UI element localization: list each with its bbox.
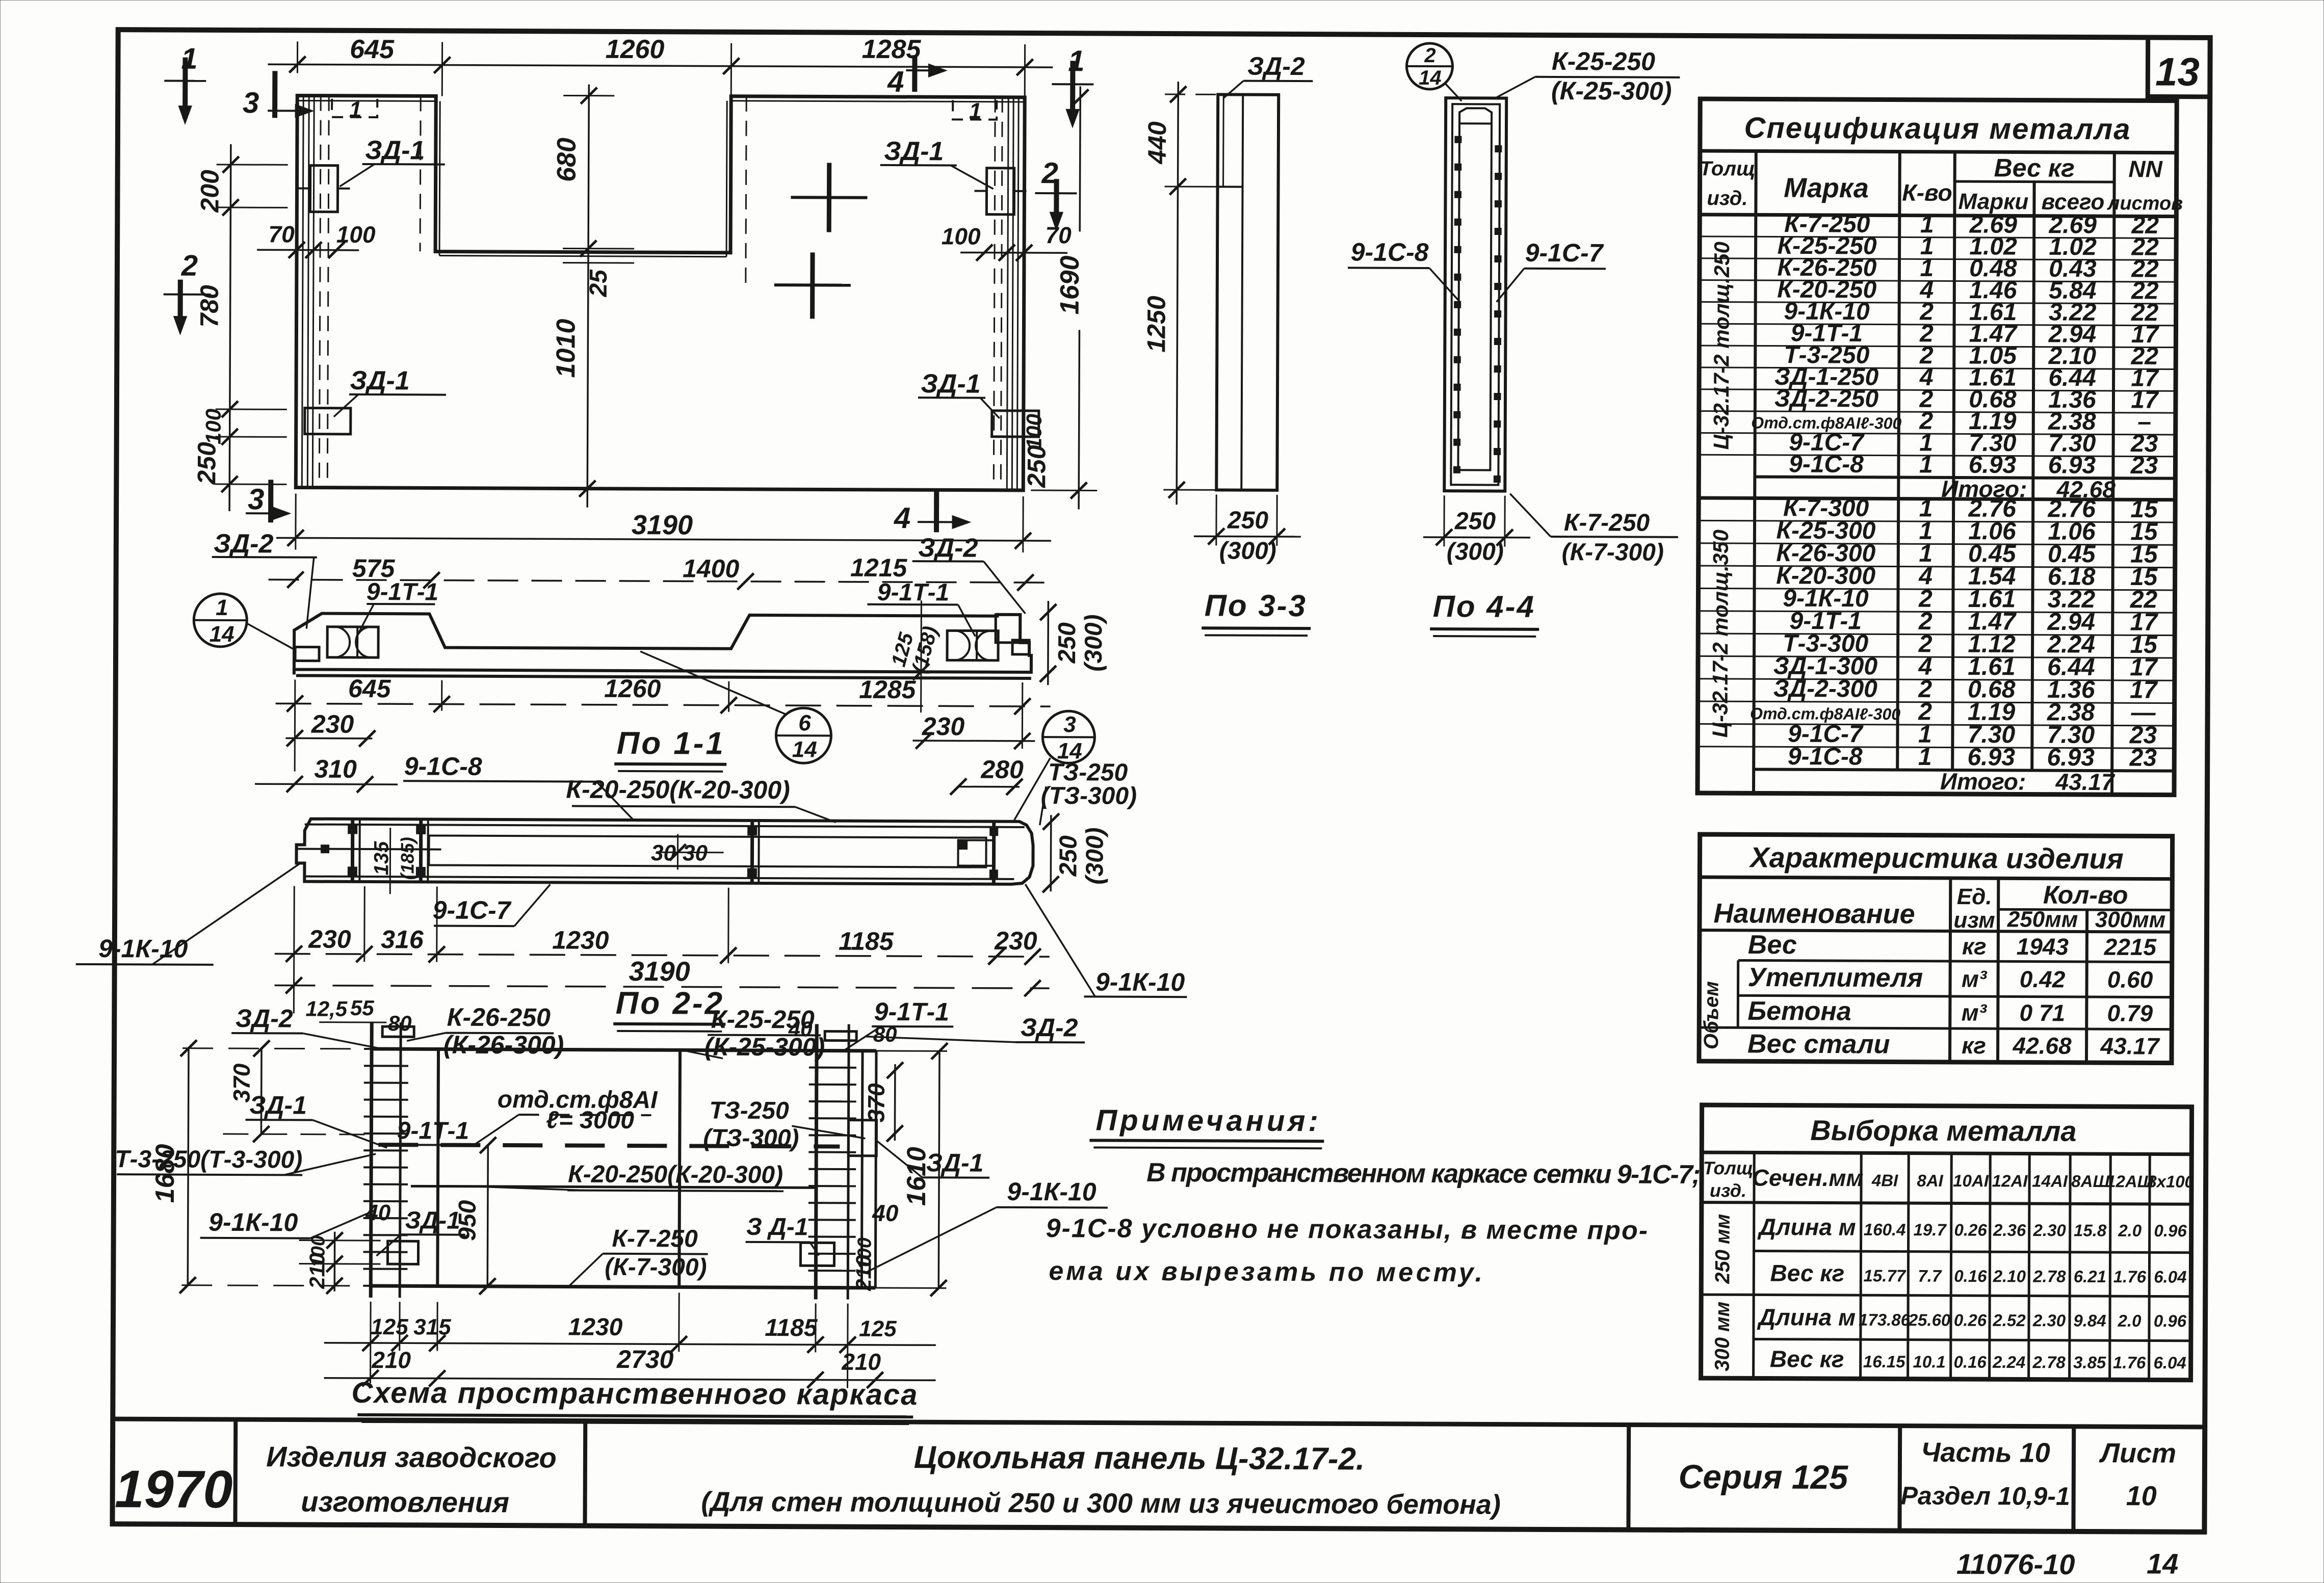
svg-text:Вес кг: Вес кг: [1994, 153, 2074, 182]
dim 1610 scheme: [938, 1051, 939, 1288]
svg-text:11076-10: 11076-10: [1956, 1548, 2075, 1580]
dim 1690 vertical right: [1080, 86, 1080, 231]
svg-text:Выборка металла: Выборка металла: [1810, 1114, 2076, 1147]
svg-text:4: 4: [887, 65, 904, 98]
callout circle 6/14: [776, 708, 831, 763]
svg-text:ЗД-1: ЗД-1: [884, 137, 944, 166]
svg-text:кг: кг: [1962, 933, 1987, 960]
dim 3190 plan bottom: [276, 538, 1051, 541]
svg-text:250мм: 250мм: [2007, 907, 2078, 932]
svg-text:7.7: 7.7: [1918, 1267, 1942, 1285]
svg-text:Раздел 10,9-1: Раздел 10,9-1: [1901, 1482, 2070, 1511]
scheme outer top chord: [372, 1049, 876, 1051]
svg-text:Кол-во: Кол-во: [2043, 881, 2128, 910]
fragment box 1 left: [332, 99, 377, 117]
svg-text:(300): (300): [1219, 537, 1276, 564]
dim 3190 Po2-2: [275, 985, 1050, 988]
dim line Po1-1 top 575/1400/1215: [269, 579, 1046, 583]
svg-text:(185): (185): [397, 837, 417, 880]
dim 370 scheme right: [894, 1064, 896, 1141]
svg-text:440: 440: [1143, 121, 1171, 165]
svg-text:2.30: 2.30: [2032, 1311, 2066, 1330]
svg-text:Итого:: Итого:: [1940, 768, 2026, 795]
svg-text:25.60: 25.60: [1908, 1310, 1951, 1329]
svg-text:В пространственном каркасе сет: В пространственном каркасе сетки 9-1С-7;: [1146, 1158, 1700, 1190]
svg-text:200: 200: [195, 170, 224, 213]
svg-text:К-25-250: К-25-250: [1552, 47, 1655, 76]
svg-text:70: 70: [269, 221, 295, 247]
svg-text:780: 780: [195, 285, 223, 328]
svg-text:Часть 10: Часть 10: [1921, 1437, 2050, 1468]
svg-text:16.15: 16.15: [1863, 1352, 1905, 1371]
svg-text:К-26-250: К-26-250: [447, 1003, 551, 1032]
embed plate ZD-1 bottom-right: [992, 411, 1039, 437]
svg-text:1185: 1185: [765, 1314, 818, 1341]
svg-text:23: 23: [2129, 745, 2157, 772]
dim 100/70 right: [960, 252, 1067, 254]
Po2-2 left end dots: [321, 845, 329, 853]
scheme right ladder: [816, 1024, 817, 1299]
Po2-2 inner core rectangle: [429, 835, 986, 867]
svg-text:1.76: 1.76: [2113, 1267, 2147, 1286]
scheme left ladder: [371, 1022, 372, 1298]
svg-text:К-7-250: К-7-250: [612, 1225, 698, 1253]
svg-text:1400: 1400: [683, 554, 740, 583]
panel plan view outline: [296, 94, 1025, 490]
svg-text:2: 2: [1424, 44, 1435, 67]
svg-text:ЗД-2-250: ЗД-2-250: [1774, 385, 1879, 413]
svg-text:ЗД-2: ЗД-2: [214, 529, 274, 559]
svg-text:2.0: 2.0: [2118, 1221, 2142, 1240]
svg-text:9.84: 9.84: [2073, 1311, 2106, 1330]
svg-text:(К-25-300): (К-25-300): [1551, 76, 1672, 105]
scheme bottom chord: [371, 1286, 875, 1288]
svg-text:316: 316: [381, 925, 424, 954]
svg-text:1.76: 1.76: [2113, 1353, 2146, 1372]
svg-text:250 мм: 250 мм: [1711, 1214, 1734, 1284]
svg-text:2.10: 2.10: [1993, 1267, 2026, 1285]
lifting cross mark lower: [774, 283, 851, 287]
svg-text:2.52: 2.52: [1992, 1311, 2026, 1330]
svg-text:0.16: 0.16: [1954, 1267, 1987, 1285]
svg-text:Серия 125: Серия 125: [1679, 1458, 1849, 1496]
embed plate ZD-1 top-right: [986, 168, 1014, 215]
svg-text:250: 250: [192, 442, 221, 485]
svg-text:Т-3-250(Т-3-300): Т-3-250(Т-3-300): [115, 1146, 302, 1173]
svg-text:(300): (300): [1447, 538, 1504, 565]
svg-text:Ц-32.17-2 толщ.250: Ц-32.17-2 толщ.250: [1709, 242, 1734, 450]
svg-text:Марка: Марка: [1784, 173, 1869, 204]
svg-text:Вес кг: Вес кг: [1770, 1260, 1844, 1287]
svg-text:300 мм: 300 мм: [1711, 1302, 1734, 1371]
svg-text:15.77: 15.77: [1863, 1266, 1906, 1285]
Po4-4 top insert: [1459, 108, 1492, 123]
svg-text:1970: 1970: [115, 1460, 233, 1519]
svg-text:3190: 3190: [629, 956, 690, 987]
page number box 13: [2148, 37, 2210, 96]
Po1-1 right end block ZD-2: [996, 615, 1020, 643]
svg-text:4ВI: 4ВI: [1871, 1171, 1898, 1190]
svg-text:1690: 1690: [1055, 255, 1085, 314]
callout circle 1/14: [194, 594, 247, 647]
svg-text:всего: всего: [2042, 190, 2105, 215]
svg-text:43.17: 43.17: [2055, 769, 2116, 795]
svg-text:6.93: 6.93: [1967, 744, 2015, 771]
table: product characteristics: [1699, 834, 2173, 1063]
embed plate ZD-1 bottom-left: [305, 408, 351, 434]
callout circle 2/14 Po4-4: [1406, 43, 1452, 89]
svg-text:Вес: Вес: [1748, 930, 1797, 960]
Po2-2 left rebar dots: [348, 825, 357, 834]
svg-text:З Д-1: З Д-1: [746, 1213, 808, 1241]
svg-text:3.85: 3.85: [2073, 1353, 2106, 1371]
svg-text:(ТЗ-300): (ТЗ-300): [703, 1125, 799, 1152]
svg-text:2.0: 2.0: [2118, 1311, 2142, 1330]
svg-text:2.30: 2.30: [2033, 1221, 2067, 1239]
svg-text:23: 23: [2130, 452, 2158, 479]
svg-text:9-1К-10: 9-1К-10: [208, 1208, 298, 1237]
scheme dashed bar otd.st: [378, 1145, 840, 1146]
svg-text:4: 4: [894, 502, 911, 535]
svg-text:15.8: 15.8: [2074, 1221, 2107, 1239]
Po2-2 middle bar: [750, 821, 754, 883]
spec block thickness 250: [1700, 236, 2176, 239]
svg-text:ЗД-1: ЗД-1: [249, 1091, 307, 1119]
svg-text:2.78: 2.78: [2032, 1267, 2066, 1286]
svg-text:1: 1: [1918, 744, 1932, 771]
svg-text:3: 3: [248, 483, 265, 516]
svg-text:ЗД-1: ЗД-1: [926, 1148, 984, 1177]
svg-text:ℓ= 3000: ℓ= 3000: [546, 1106, 634, 1134]
svg-text:9-1С-8: 9-1С-8: [1789, 451, 1864, 478]
svg-text:(К-26-300): (К-26-300): [443, 1031, 564, 1060]
svg-text:14: 14: [792, 737, 817, 762]
svg-text:230: 230: [308, 925, 351, 954]
plan notch inner lines: [439, 101, 440, 256]
svg-text:160.4: 160.4: [1864, 1220, 1906, 1239]
dims 210/100 scheme left: [333, 1232, 335, 1291]
svg-text:К-во: К-во: [1902, 179, 1952, 206]
svg-text:14: 14: [2147, 1547, 2179, 1579]
svg-text:К-20-250(К-20-300): К-20-250(К-20-300): [566, 775, 790, 805]
svg-text:0.60: 0.60: [2107, 966, 2153, 993]
svg-text:70: 70: [1046, 222, 1072, 248]
svg-text:Вес кг: Вес кг: [1770, 1345, 1844, 1373]
svg-text:NN: NN: [2128, 155, 2162, 182]
scheme left ladder inner vertical: [437, 1049, 438, 1286]
svg-text:2.78: 2.78: [2032, 1353, 2066, 1371]
svg-text:575: 575: [352, 554, 396, 583]
scheme top plate left: [382, 1026, 414, 1037]
svg-text:Бетона: Бетона: [1747, 996, 1851, 1026]
Po1-1 right small square: [1012, 640, 1029, 654]
svg-text:(К-7-300): (К-7-300): [605, 1254, 707, 1281]
svg-text:6: 6: [798, 710, 811, 735]
Po4-4 rebar dots: [1455, 136, 1461, 143]
svg-text:9-1Т-1: 9-1Т-1: [397, 1117, 469, 1145]
svg-text:9-1С-7: 9-1С-7: [433, 896, 512, 925]
section Po3-3 body: [1216, 94, 1278, 490]
svg-text:изд.: изд.: [1710, 1180, 1746, 1201]
svg-text:ЗД-2: ЗД-2: [918, 533, 978, 563]
svg-text:55: 55: [350, 996, 375, 1020]
svg-text:изм: изм: [1953, 908, 1995, 933]
svg-text:0.16: 0.16: [1954, 1352, 1987, 1371]
svg-text:К-7-250: К-7-250: [1564, 509, 1650, 537]
svg-text:Спецификация металла: Спецификация металла: [1744, 111, 2131, 146]
svg-text:6.04: 6.04: [2154, 1353, 2186, 1372]
svg-text:ема их вырезать по месту.: ема их вырезать по месту.: [1049, 1256, 1485, 1287]
svg-text:Наименование: Наименование: [1713, 898, 1915, 930]
svg-text:12,5: 12,5: [305, 997, 348, 1021]
svg-text:0.26: 0.26: [1954, 1220, 1988, 1239]
svg-text:Ед.: Ед.: [1957, 884, 1992, 909]
svg-text:10: 10: [2126, 1481, 2157, 1511]
svg-text:Схема пространственного каркас: Схема пространственного каркаса: [351, 1376, 918, 1411]
svg-text:листов: листов: [2107, 193, 2183, 215]
svg-text:3190: 3190: [632, 510, 693, 540]
svg-text:ЗД-2-300: ЗД-2-300: [1773, 675, 1878, 703]
svg-text:Лист: Лист: [2099, 1438, 2176, 1469]
dim line top 645/1260/1285: [268, 64, 1053, 67]
svg-text:1010: 1010: [551, 319, 581, 378]
svg-text:13: 13: [2155, 49, 2200, 94]
scheme middle vertical: [679, 1050, 680, 1287]
svg-text:6.93: 6.93: [2048, 452, 2096, 479]
svg-text:1285: 1285: [862, 35, 922, 64]
svg-text:1230: 1230: [568, 1314, 622, 1341]
svg-text:Утеплителя: Утеплителя: [1747, 963, 1923, 993]
svg-text:14: 14: [210, 622, 234, 647]
svg-text:К-25-250: К-25-250: [711, 1005, 815, 1034]
embed plate ZD-1 top-left: [310, 166, 337, 212]
scheme right edge vertical: [875, 1051, 876, 1288]
svg-text:1260: 1260: [604, 674, 661, 703]
svg-text:2.24: 2.24: [1992, 1353, 2025, 1371]
svg-text:310: 310: [314, 755, 357, 783]
lifting cross mark upper: [791, 196, 867, 199]
svg-text:0 71: 0 71: [2019, 999, 2065, 1026]
svg-text:125: 125: [859, 1316, 897, 1341]
svg-text:ТЗ-250: ТЗ-250: [709, 1097, 789, 1125]
dim line Po2-2 230/316/1230/1185/230: [275, 954, 1050, 957]
fragment box 1 right: [953, 100, 997, 119]
svg-text:6.04: 6.04: [2154, 1267, 2186, 1286]
svg-text:1215: 1215: [850, 553, 908, 582]
plan insulation dashed lines left: [319, 96, 321, 488]
svg-text:100: 100: [854, 1237, 875, 1270]
plan dashed line at notch right: [746, 96, 746, 284]
svg-text:ЗД-1: ЗД-1: [921, 369, 980, 399]
svg-text:1: 1: [969, 99, 982, 124]
svg-text:19.7: 19.7: [1914, 1220, 1947, 1239]
callout circle 3/14 right: [1042, 711, 1094, 763]
svg-text:2: 2: [181, 249, 198, 282]
svg-text:210: 210: [841, 1349, 881, 1375]
svg-text:100: 100: [336, 221, 376, 248]
svg-text:Вес стали: Вес стали: [1747, 1029, 1890, 1059]
svg-text:По 4-4: По 4-4: [1433, 589, 1535, 624]
svg-text:Марки: Марки: [1959, 189, 2029, 215]
svg-text:250: 250: [1227, 507, 1269, 534]
svg-text:210: 210: [371, 1347, 411, 1373]
svg-text:Объем: Объем: [1700, 981, 1723, 1049]
dim 370 scheme left: [260, 1048, 263, 1134]
plan top edge inner lines: [297, 100, 436, 101]
svg-text:По 1-1: По 1-1: [617, 726, 726, 761]
scheme right inner vertical: [861, 1051, 863, 1288]
svg-text:9-1К-10: 9-1К-10: [1095, 967, 1185, 996]
dim column left 200/780/100/250: [229, 144, 231, 511]
svg-text:6.21: 6.21: [2074, 1267, 2106, 1286]
svg-text:43.17: 43.17: [2100, 1033, 2160, 1059]
svg-text:3: 3: [1063, 712, 1076, 737]
svg-text:14АI: 14АI: [2032, 1172, 2068, 1191]
svg-text:1943: 1943: [2017, 933, 2069, 960]
svg-text:8АI: 8АI: [1917, 1171, 1943, 1190]
svg-text:42.68: 42.68: [2012, 1032, 2072, 1059]
svg-text:250: 250: [1055, 835, 1082, 877]
svg-text:173.86: 173.86: [1859, 1310, 1911, 1329]
scheme top plate right: [825, 1031, 856, 1040]
Po2-2 left end center line: [297, 849, 441, 849]
dim 440/1250 Po3-3: [1177, 82, 1178, 505]
svg-text:100: 100: [201, 409, 225, 444]
svg-text:1: 1: [349, 97, 362, 122]
title block: [113, 1419, 2205, 1427]
svg-text:ЗД-2: ЗД-2: [1247, 52, 1305, 81]
svg-text:230: 230: [311, 710, 354, 738]
dim 70/100 left: [257, 249, 359, 251]
svg-text:изд.: изд.: [1707, 187, 1747, 209]
svg-text:(К-25-300): (К-25-300): [704, 1033, 825, 1062]
table: specification of metal: [1698, 99, 2177, 795]
svg-text:(300): (300): [1080, 614, 1107, 671]
scheme K-20 bar: [411, 1186, 816, 1188]
svg-text:Длина м: Длина м: [1757, 1213, 1856, 1241]
svg-text:Цокольная панель Ц-32.17-2.: Цокольная панель Ц-32.17-2.: [914, 1440, 1365, 1476]
svg-text:250: 250: [1054, 622, 1081, 664]
svg-text:1: 1: [1919, 451, 1933, 478]
svg-text:10.1: 10.1: [1913, 1352, 1946, 1371]
svg-text:м³: м³: [1962, 999, 1988, 1026]
plan dashed line at notch left: [420, 96, 421, 251]
svg-text:(Для стен толщиной 250 и 300 м: (Для стен толщиной 250 и 300 мм из ячеис…: [701, 1487, 1501, 1520]
svg-text:1250: 1250: [1142, 296, 1170, 353]
svg-text:изготовления: изготовления: [301, 1486, 509, 1519]
svg-text:14: 14: [1419, 67, 1442, 89]
svg-text:1185: 1185: [839, 927, 894, 956]
svg-text:3: 3: [243, 86, 259, 119]
scheme bottom dim 125/315/1230/1185/125: [324, 1343, 936, 1345]
svg-text:0.79: 0.79: [2107, 1000, 2153, 1026]
svg-text:1260: 1260: [606, 35, 665, 64]
dim 1680 scheme: [188, 1048, 189, 1285]
svg-text:кг: кг: [1962, 1032, 1986, 1059]
svg-text:25: 25: [585, 269, 612, 298]
svg-text:10АI: 10АI: [1953, 1171, 1989, 1190]
table: metal selection: [1701, 1105, 2192, 1380]
scheme bottom dim 210/2730/210: [324, 1378, 936, 1381]
svg-text:(ТЗ-300): (ТЗ-300): [1041, 782, 1137, 810]
svg-text:280: 280: [980, 755, 1024, 784]
svg-text:1285: 1285: [859, 675, 917, 704]
scheme plate right upper: [848, 1120, 876, 1156]
svg-text:(К-7-300): (К-7-300): [1562, 539, 1664, 566]
svg-text:0.26: 0.26: [1954, 1310, 1987, 1329]
svg-text:Толщ: Толщ: [1703, 1157, 1754, 1178]
svg-text:12АI: 12АI: [1992, 1171, 2028, 1190]
dim 250/(300) Po1-1 right: [1047, 601, 1049, 685]
svg-text:680: 680: [552, 138, 582, 182]
Po2-2 left rebar bars: [351, 819, 354, 882]
svg-text:Характеристика изделия: Характеристика изделия: [1748, 841, 2124, 875]
dim line Po1-1 bottom 645/1260/1285: [276, 703, 1051, 706]
svg-text:ЗД-2: ЗД-2: [236, 1004, 293, 1033]
svg-text:100: 100: [1022, 414, 1046, 450]
svg-text:По 3-3: По 3-3: [1205, 588, 1307, 623]
svg-text:9-1С-8 условно не показаны,: 9-1С-8 условно не показаны, в месте про-: [1046, 1213, 1649, 1246]
svg-text:6.93: 6.93: [1969, 452, 2017, 479]
svg-text:100: 100: [942, 223, 981, 249]
svg-text:Сечен.мм: Сечен.мм: [1752, 1164, 1864, 1191]
svg-text:8х100: 8х100: [2147, 1172, 2195, 1191]
svg-text:9-1С-8: 9-1С-8: [404, 752, 482, 781]
scheme plate ZD-1 left bottom: [387, 1241, 418, 1264]
plan insulation dashed lines right: [994, 97, 995, 490]
svg-text:ЗД-1: ЗД-1: [350, 366, 409, 395]
dim 250(300) Po4-4: [1423, 536, 1530, 538]
svg-text:1230: 1230: [552, 926, 609, 954]
svg-text:2215: 2215: [2104, 934, 2157, 960]
svg-text:9-1К-10: 9-1К-10: [1007, 1177, 1096, 1206]
dim 680/25/1010 vertical: [587, 85, 589, 508]
svg-text:645: 645: [350, 35, 395, 64]
section Po1-1 profile: [294, 612, 1031, 677]
svg-text:645: 645: [348, 674, 391, 703]
svg-text:0.42: 0.42: [2020, 966, 2066, 992]
Po1-1 right anchor cylinder: [947, 630, 998, 660]
spec block thickness 300: [1699, 520, 2175, 522]
scheme plate ZD-1 right bottom: [800, 1243, 834, 1265]
svg-text:80: 80: [388, 1011, 412, 1035]
svg-text:250: 250: [1022, 445, 1051, 488]
svg-text:9-1С-7: 9-1С-7: [1525, 239, 1604, 268]
svg-text:0.96: 0.96: [2154, 1221, 2187, 1240]
dim 250(300) Po3-3: [1194, 535, 1301, 537]
svg-text:Примечания:: Примечания:: [1095, 1104, 1321, 1138]
svg-text:Изделия заводского: Изделия заводского: [266, 1440, 557, 1473]
svg-text:ЗД-1: ЗД-1: [365, 136, 425, 165]
svg-text:40: 40: [872, 1200, 899, 1226]
svg-text:К-20-250(К-20-300): К-20-250(К-20-300): [568, 1161, 783, 1189]
svg-text:2.36: 2.36: [1993, 1221, 2026, 1239]
svg-text:По 2-2: По 2-2: [616, 986, 725, 1021]
svg-text:125: 125: [371, 1314, 408, 1339]
section Po2-2 body: [296, 819, 1033, 884]
svg-text:9-1Т-1: 9-1Т-1: [874, 997, 949, 1026]
svg-text:0.96: 0.96: [2154, 1311, 2187, 1330]
svg-text:Толщ: Толщ: [1700, 157, 1756, 180]
svg-text:370: 370: [863, 1083, 890, 1122]
svg-text:250: 250: [1454, 508, 1496, 535]
Po1-1 left key rect: [295, 647, 319, 661]
svg-text:м³: м³: [1962, 966, 1988, 992]
section Po4-4 body: [1444, 98, 1506, 491]
dim 950 scheme: [487, 1145, 488, 1286]
plan wall layer lines left: [302, 96, 303, 488]
svg-text:6.93: 6.93: [2047, 744, 2095, 771]
